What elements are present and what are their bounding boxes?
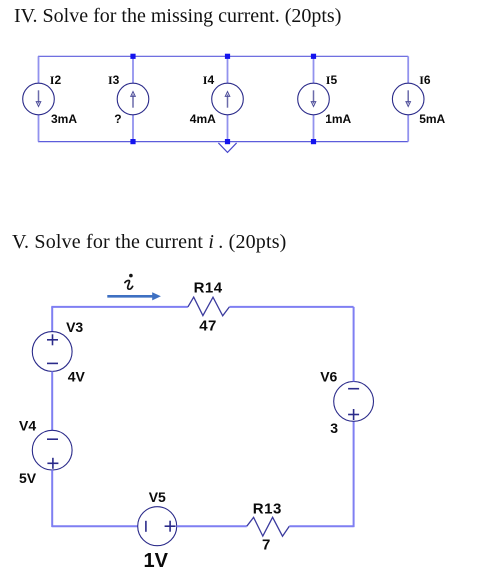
label: R14 designator (194, 280, 223, 297)
svg-text:3: 3 (330, 420, 338, 436)
current source I3 (?, arrow up) (117, 83, 149, 115)
wire: I3 branch vertical (132, 56, 134, 141)
svg-text:5V: 5V (19, 470, 37, 486)
current source I4 (4mA, arrow up) (212, 83, 244, 115)
label: V4 value 5V (19, 470, 37, 486)
svg-text:3mA: 3mA (51, 112, 77, 126)
voltage source V3 (4V, + top) (32, 332, 72, 372)
wire: right edge upper segment (353, 307, 355, 382)
label: V4 designator (19, 418, 36, 434)
svg-text:V4: V4 (19, 418, 36, 434)
label: I6 value 5mA (419, 112, 445, 126)
current source I5 (1mA, arrow down) (298, 83, 330, 115)
svg-text:I4: I4 (203, 73, 215, 87)
svg-text:V5: V5 (149, 489, 166, 505)
resistor R13 (247, 517, 289, 536)
junction: I5 bottom node square (311, 139, 316, 144)
label: V6 value 3 (330, 420, 338, 436)
junction: I5 top node square (311, 54, 316, 59)
label: I4 designator (203, 73, 215, 87)
svg-text:R14: R14 (194, 280, 223, 297)
svg-text:I2: I2 (50, 73, 62, 87)
wire: right edge lower segment (353, 421, 355, 527)
svg-text:5mA: 5mA (419, 112, 445, 126)
label: V3 value 4V (68, 368, 86, 384)
svg-text:I3: I3 (108, 73, 120, 87)
wire: top bus of circuit 1 (38, 55, 408, 57)
wire: I4 branch vertical (227, 56, 229, 141)
svg-text:I6: I6 (419, 73, 431, 87)
label: current i (italic) (125, 274, 133, 289)
label: V5 designator (149, 489, 166, 505)
wire: left edge lower segment (51, 470, 53, 527)
junction: I4 top node square (225, 54, 230, 59)
ground symbol below I4 bottom node (218, 143, 236, 153)
svg-text:V6: V6 (320, 368, 337, 384)
label: R13 designator (253, 500, 282, 517)
label: R14 value 47 (199, 317, 217, 334)
label: I2 designator (50, 73, 62, 87)
current source I2 (3mA, arrow down) (23, 83, 55, 115)
junction: I3 bottom node square (130, 139, 135, 144)
label: I5 value 1mA (325, 112, 351, 126)
wire: bottom-right segment (289, 525, 353, 527)
label: V6 designator (320, 368, 337, 384)
svg-text:47: 47 (199, 317, 217, 334)
heading: problem IV title (14, 5, 341, 28)
svg-text:?: ? (114, 112, 121, 126)
wire: bottom-left segment (52, 525, 138, 527)
current source I6 (5mA, arrow down) (392, 83, 424, 115)
heading: problem V title (12, 231, 287, 254)
resistor R14 (188, 297, 230, 316)
label: V3 designator (66, 319, 83, 335)
svg-text:7: 7 (262, 537, 270, 554)
svg-text:R13: R13 (253, 500, 282, 517)
svg-text:4V: 4V (68, 368, 86, 384)
wire: left edge middle segment (51, 371, 53, 430)
label: I4 value 4mA (190, 112, 216, 126)
wire: left edge upper segment (51, 307, 53, 332)
voltage source V5 (1V, + right) (138, 507, 177, 546)
wire: circuit 2 top-left segment (51, 306, 188, 308)
svg-text:1V: 1V (144, 550, 169, 572)
current arrow i annotation (107, 292, 161, 300)
voltage source V6 (3V, - top) (334, 382, 374, 422)
svg-text:1mA: 1mA (325, 112, 351, 126)
wire: circuit 2 top-right segment (229, 306, 353, 308)
wire: I5 branch vertical (313, 56, 315, 141)
label: I3 value ? (114, 112, 121, 126)
junction: I4 bottom node square (225, 139, 230, 144)
wire: bottom middle segment (177, 525, 247, 527)
label: R13 value 7 (262, 537, 270, 554)
label: V5 value 1V (144, 550, 169, 572)
label: I6 designator (419, 73, 431, 87)
svg-text:I5: I5 (326, 73, 338, 87)
label: I3 designator (108, 73, 120, 87)
junction: I3 top node square (130, 54, 135, 59)
wire: bottom bus of circuit 1 (38, 141, 408, 143)
voltage source V4 (5V, - top) (32, 430, 72, 470)
wire: I6 branch vertical (right edge) (407, 56, 409, 141)
label: I5 designator (326, 73, 338, 87)
label: I2 value 3mA (51, 112, 77, 126)
svg-text:4mA: 4mA (190, 112, 216, 126)
wire: I2 branch vertical (left edge) (38, 56, 40, 141)
svg-text:V3: V3 (66, 319, 83, 335)
